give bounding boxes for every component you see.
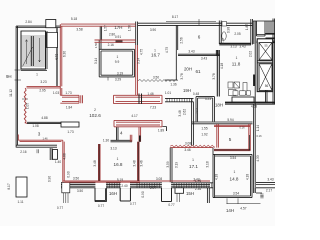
red pier structure	[60, 88, 79, 103]
svg-text:9.9: 9.9	[115, 60, 120, 64]
svg-text:11.8: 11.8	[232, 61, 241, 66]
svg-text:19Н: 19Н	[183, 88, 191, 93]
red wall between 9.9/16.7 lower	[136, 45, 138, 96]
svg-text:3.29: 3.29	[115, 77, 121, 81]
red vertical x60-61.5	[60, 24, 62, 88]
bottom band hatched y182.5-188	[61, 183, 214, 188]
svg-text:3.43: 3.43	[239, 45, 245, 49]
svg-text:2.02: 2.02	[195, 108, 199, 114]
wavy break line under 16.7	[138, 80, 178, 82]
svg-text:6.30: 6.30	[63, 51, 67, 57]
18H room box	[196, 97, 215, 122]
RED WALLS	[18, 24, 250, 182]
svg-text:0.90: 0.90	[141, 191, 145, 197]
svg-text:3.54: 3.54	[233, 192, 239, 196]
svg-text:3.59: 3.59	[166, 161, 170, 167]
wall y122 across	[192, 122, 253, 124]
svg-text:9Н: 9Н	[6, 74, 12, 79]
svg-text:3.48: 3.48	[178, 110, 182, 116]
svg-text:5.19: 5.19	[117, 178, 123, 182]
svg-text:0.98: 0.98	[226, 27, 230, 33]
bathroom wall left x219	[219, 21, 221, 45]
vertical wall x191.5	[192, 98, 194, 145]
RED labels	[6, 25, 234, 213]
svg-text:4.57: 4.57	[240, 206, 246, 210]
red line y125.5	[214, 125, 250, 126]
stair enclosure inner	[21, 31, 46, 69]
black block crossing bar	[139, 94, 142, 105]
svg-text:3.78: 3.78	[180, 73, 184, 79]
svg-text:4.17: 4.17	[131, 114, 137, 118]
red horizontal y86.5	[27, 86, 61, 88]
room5 right red wall	[249, 124, 251, 151]
svg-text:55: 55	[264, 43, 268, 47]
svg-text:4.88: 4.88	[63, 153, 67, 159]
left porch piers	[50, 148, 52, 160]
svg-text:1.73: 1.73	[65, 91, 71, 95]
svg-text:5.94: 5.94	[227, 118, 233, 122]
svg-text:11.12: 11.12	[9, 89, 13, 97]
svg-text:56: 56	[265, 84, 269, 88]
svg-text:2.17: 2.17	[266, 188, 272, 192]
svg-text:5: 5	[229, 137, 232, 142]
svg-text:4.18: 4.18	[245, 174, 249, 180]
svg-text:16.8: 16.8	[114, 162, 123, 167]
svg-text:3.50: 3.50	[153, 75, 159, 79]
svg-text:3.54: 3.54	[230, 156, 236, 160]
svg-text:16.7: 16.7	[151, 53, 160, 58]
svg-text:1: 1	[36, 72, 38, 76]
svg-text:3.19: 3.19	[174, 162, 178, 168]
svg-text:2.16: 2.16	[20, 150, 26, 154]
svg-text:7.23: 7.23	[150, 106, 156, 110]
svg-text:3.23: 3.23	[205, 97, 211, 101]
left porch opening box	[62, 182, 70, 192]
svg-text:4.33: 4.33	[256, 155, 260, 161]
svg-text:61: 61	[195, 69, 201, 74]
staircase treads	[22, 36, 46, 66]
corridor wall red x98-101	[99, 144, 101, 181]
15H entry walls	[175, 188, 184, 194]
room3 top wall	[27, 122, 62, 123]
red band y40-42.5	[95, 40, 136, 42]
svg-text:1.46: 1.46	[195, 179, 201, 183]
svg-text:1: 1	[117, 55, 119, 59]
svg-text:15Н: 15Н	[186, 191, 194, 196]
red bottom over band	[63, 181, 210, 182]
svg-text:0.91: 0.91	[115, 35, 121, 39]
svg-text:1.87: 1.87	[245, 24, 249, 30]
svg-text:3.50: 3.50	[73, 177, 79, 181]
svg-text:0.48: 0.48	[193, 92, 199, 96]
white gaps in band at notches	[95, 182, 171, 188]
black wall bits around wavy end	[165, 50, 178, 80]
svg-text:0.77: 0.77	[98, 204, 104, 208]
svg-text:5.18: 5.18	[71, 17, 77, 21]
svg-text:3.14: 3.14	[94, 58, 98, 64]
bottom-left detached rect	[16, 177, 27, 197]
svg-text:1: 1	[234, 170, 236, 174]
svg-text:3.50: 3.50	[77, 189, 83, 193]
svg-text:2.97: 2.97	[150, 186, 156, 190]
14.8 door ticks bottom	[227, 198, 238, 204]
svg-text:4.58: 4.58	[251, 105, 257, 109]
svg-text:1.57: 1.57	[104, 25, 108, 31]
small dark block over band	[116, 40, 123, 43]
svg-text:3.19: 3.19	[117, 72, 123, 76]
svg-text:14Н: 14Н	[226, 208, 234, 213]
lobby right wall	[56, 28, 57, 87]
svg-text:4.73: 4.73	[55, 54, 59, 60]
svg-text:1: 1	[236, 56, 238, 60]
svg-text:3.43: 3.43	[267, 178, 273, 182]
svg-text:3.18: 3.18	[205, 161, 209, 167]
svg-text:3.13: 3.13	[230, 45, 236, 49]
svg-text:0.77: 0.77	[130, 202, 136, 206]
rotated dims	[7, 24, 260, 198]
svg-text:2.62: 2.62	[182, 109, 186, 115]
svg-text:1.30: 1.30	[103, 139, 109, 143]
svg-text:4.18: 4.18	[220, 63, 224, 69]
svg-text:4.88: 4.88	[41, 116, 47, 120]
svg-text:1.46: 1.46	[42, 137, 48, 141]
svg-text:17Н: 17Н	[114, 25, 122, 30]
door stripes bottom right	[260, 194, 263, 198]
wall between 9.9 and 16.7 black part	[136, 22, 138, 46]
bottom-left outer wall y145	[16, 145, 57, 147]
svg-text:0.16: 0.16	[256, 134, 262, 138]
svg-text:14.8: 14.8	[230, 176, 239, 181]
heavy wall y102-104	[225, 102, 275, 104]
door notches bottom	[95, 188, 106, 201]
svg-text:8.17: 8.17	[7, 183, 11, 189]
room4 bottom wall	[111, 140, 133, 142]
room5 bottom red	[214, 149, 250, 150]
corner at 216	[216, 50, 218, 56]
top wall black right part	[138, 23, 253, 25]
corridor wall red x137-140	[138, 142, 139, 181]
svg-text:3.43: 3.43	[188, 50, 194, 54]
small ticks	[22, 77, 108, 99]
svg-text:2.40: 2.40	[121, 184, 127, 188]
elevator machine rect top	[46, 20, 56, 28]
room 14.8 box	[213, 154, 252, 197]
svg-text:3.48: 3.48	[93, 160, 97, 166]
center vertical wall 61/11.8	[217, 50, 219, 97]
svg-text:2.56: 2.56	[180, 37, 184, 43]
TEXTS black dims	[18, 15, 274, 210]
svg-text:3.14: 3.14	[137, 58, 141, 64]
mid vertical red wall x216.5-219	[217, 124, 219, 148]
svg-text:2.02: 2.02	[249, 51, 253, 57]
wall x213.5 (17.1 / 14.8)	[213, 148, 215, 198]
fixtures below 11.8	[228, 82, 233, 88]
svg-text:2: 2	[94, 108, 96, 112]
room6/61 divider wall	[178, 54, 220, 55]
top wall staircase block	[16, 26, 61, 27]
svg-text:0.90: 0.90	[48, 176, 52, 182]
svg-text:1.40: 1.40	[55, 160, 61, 164]
svg-text:1.50: 1.50	[94, 42, 98, 48]
svg-text:3.43: 3.43	[201, 56, 207, 60]
left outer wall	[16, 26, 17, 148]
top red wall 17H	[61, 24, 136, 26]
hatched wall 19H y98-102	[165, 98, 194, 101]
room 6 left wall	[176, 26, 177, 51]
svg-text:1: 1	[117, 157, 119, 161]
svg-text:2.84: 2.84	[25, 20, 31, 24]
long red bar	[114, 95, 163, 103]
svg-text:1.36: 1.36	[170, 82, 176, 86]
svg-text:1.03: 1.03	[53, 91, 59, 95]
svg-text:2.36: 2.36	[195, 187, 201, 191]
svg-text:3.90: 3.90	[150, 28, 156, 32]
svg-text:3.13: 3.13	[110, 146, 116, 150]
small room side walls	[99, 26, 101, 49]
svg-text:17.1: 17.1	[189, 164, 198, 169]
svg-text:3.46: 3.46	[184, 148, 190, 152]
svg-text:3.08: 3.08	[156, 177, 162, 181]
svg-text:102.6: 102.6	[89, 113, 101, 118]
svg-text:6: 6	[198, 34, 201, 39]
toilet oval	[222, 32, 226, 40]
svg-text:4.18: 4.18	[214, 174, 218, 180]
dim line above top wall	[166, 19, 216, 25]
top-right small room	[253, 21, 276, 104]
svg-text:3.23: 3.23	[40, 80, 46, 84]
svg-text:1.05: 1.05	[25, 103, 29, 109]
svg-text:16Н: 16Н	[109, 191, 117, 196]
elevator shaft block	[257, 39, 273, 92]
svg-text:0.90: 0.90	[67, 171, 71, 177]
svg-text:1: 1	[192, 158, 194, 162]
svg-text:3.58: 3.58	[76, 27, 82, 31]
red vertical 16H x62.5-64	[63, 140, 64, 182]
17.1 top wavy red	[170, 145, 215, 147]
svg-text:2.18: 2.18	[221, 38, 225, 44]
red bar y120-127	[114, 120, 162, 126]
svg-text:1.14: 1.14	[256, 125, 260, 131]
svg-text:1.55: 1.55	[201, 126, 207, 130]
white bar above heavy wall	[232, 97, 254, 102]
svg-text:3.78: 3.78	[212, 73, 216, 79]
top-right hatch lines	[267, 19, 275, 105]
svg-text:0.16: 0.16	[239, 126, 245, 130]
svg-text:3: 3	[38, 131, 41, 136]
room 17.1 left wall	[170, 148, 172, 183]
svg-text:4: 4	[120, 130, 123, 135]
svg-text:2.16: 2.16	[108, 43, 114, 47]
svg-text:3.46: 3.46	[139, 160, 143, 166]
svg-text:1.84: 1.84	[66, 106, 72, 110]
svg-text:1.11: 1.11	[18, 200, 24, 204]
svg-text:3.08: 3.08	[185, 141, 191, 145]
red vertical room4	[130, 135, 132, 142]
svg-text:1.46: 1.46	[147, 92, 153, 96]
svg-text:3.48: 3.48	[132, 160, 136, 166]
svg-text:20Н: 20Н	[184, 66, 192, 71]
bottom right steps	[255, 183, 275, 193]
svg-text:1.89: 1.89	[158, 129, 164, 133]
room 9.9 box	[99, 49, 134, 77]
small corner right of red bar	[163, 127, 167, 132]
svg-text:18Н: 18Н	[215, 102, 223, 107]
svg-text:8.17: 8.17	[172, 15, 178, 19]
fixtures row above bar	[233, 91, 238, 95]
svg-text:1.73: 1.73	[67, 130, 73, 134]
svg-text:1.92: 1.92	[201, 133, 207, 137]
svg-text:1.50: 1.50	[128, 25, 132, 31]
svg-text:0.77: 0.77	[57, 206, 63, 210]
left porch under band	[64, 193, 69, 203]
svg-text:4.75: 4.75	[140, 49, 144, 55]
svg-text:0.77: 0.77	[168, 203, 174, 207]
door frame marks right wall	[253, 75, 255, 87]
band wall black pier (61-79)	[61, 122, 79, 127]
ticks left wall	[15, 70, 22, 80]
svg-text:2.05: 2.05	[234, 32, 240, 36]
top right small wall x250.8	[251, 19, 253, 45]
room3 red corner	[18, 135, 63, 142]
wavy red left wall	[24, 88, 27, 124]
svg-text:1.01: 1.01	[165, 91, 171, 95]
svg-text:1.08: 1.08	[32, 124, 38, 128]
svg-text:2.95: 2.95	[39, 88, 45, 92]
svg-text:4.75: 4.75	[165, 47, 169, 53]
right outer wall lower	[254, 104, 256, 193]
bathroom bottom thick	[219, 43, 251, 44]
